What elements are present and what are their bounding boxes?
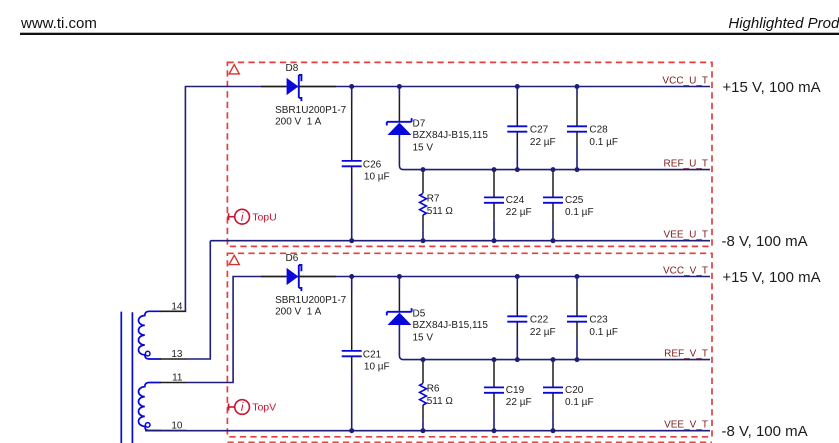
capacitor C21 (10 uF) [342, 351, 362, 356]
svg-text:+15 V, 100 mA: +15 V, 100 mA [722, 79, 820, 96]
pin 11 stub [160, 382, 186, 384]
capacitor C19 (22 uF) [484, 387, 504, 392]
node: VCC_U junctions [349, 84, 354, 89]
capacitor C23 (0.1 uF) [567, 316, 587, 321]
info flag TopV [227, 400, 249, 415]
svg-text:BZX84J-B15,115: BZX84J-B15,115 [413, 320, 489, 331]
wire: VCC_V rail [273, 276, 710, 278]
transformer secondary winding (pins 14-13) [138, 311, 160, 359]
wire: C21 bottom lead [351, 357, 353, 373]
wire: VEE_V rail [145, 430, 710, 432]
zener D5 (BZX84J-B15,115) [387, 308, 412, 325]
wire: C20 top lead [552, 360, 554, 387]
capacitor C20 (0.1 uF) [543, 387, 563, 392]
node: VCC_V junctions [349, 274, 354, 279]
wire: D7 top lead [398, 87, 400, 98]
wire: D5 top lead [398, 277, 400, 288]
svg-text:511 Ω: 511 Ω [427, 396, 454, 407]
svg-text:C20: C20 [565, 385, 584, 396]
wire: diode D6 cathode pin [300, 276, 336, 278]
svg-text:10 µF: 10 µF [364, 361, 390, 372]
wire: C28 top lead [576, 87, 578, 96]
svg-text:10 µF: 10 µF [364, 171, 390, 182]
phase dot lower winding [145, 423, 150, 428]
wire: C22 bottom lead [516, 322, 518, 337]
svg-text:BZX84J-B15,115: BZX84J-B15,115 [413, 130, 489, 141]
svg-text:D8: D8 [286, 63, 299, 74]
svg-text:R7: R7 [427, 194, 440, 205]
svg-text:13: 13 [171, 349, 183, 360]
pin 10 stub [160, 430, 186, 432]
svg-text:i: i [241, 402, 244, 414]
svg-text:SBR1U200P1-7: SBR1U200P1-7 [275, 295, 347, 306]
svg-text:0.1 µF: 0.1 µF [565, 397, 594, 408]
svg-text:VCC_V_T: VCC_V_T [663, 266, 708, 277]
wire: C21 top lead [351, 277, 353, 291]
header rule [20, 33, 839, 35]
wire: C19 top lead [493, 360, 495, 387]
wire: C25 bottom lead [552, 203, 554, 219]
wire: C28 bottom lead [576, 132, 578, 147]
svg-text:-8 V, 100 mA: -8 V, 100 mA [722, 423, 808, 440]
svg-text:0.1 µF: 0.1 µF [589, 137, 618, 148]
svg-text:22 µF: 22 µF [530, 137, 556, 148]
svg-text:200 V 1 A: 200 V 1 A [275, 116, 321, 127]
svg-text:22 µF: 22 µF [506, 207, 532, 218]
svg-text:-8 V, 100 mA: -8 V, 100 mA [722, 233, 808, 250]
wire: REF_U rail from zener elbow [399, 134, 710, 170]
svg-text:C25: C25 [565, 195, 584, 206]
red dashed top edge of bottom (clipped) box [227, 441, 712, 443]
svg-text:VCC_U_T: VCC_U_T [662, 76, 708, 87]
wire: diode D8 cathode pin [300, 86, 336, 88]
svg-text:C23: C23 [589, 315, 608, 326]
red dashed highlight box TopU [227, 62, 712, 246]
wire: C22 top lead [516, 277, 518, 286]
wire: diode D6 pins [261, 276, 286, 278]
svg-text:C22: C22 [530, 315, 549, 326]
svg-text:VEE_U_T: VEE_U_T [664, 230, 708, 241]
svg-text:0.1 µF: 0.1 µF [589, 327, 618, 338]
svg-text:i: i [241, 212, 244, 224]
wire: C25 top lead [552, 170, 554, 197]
svg-text:15 V: 15 V [413, 142, 434, 153]
svg-text:REF_V_T: REF_V_T [664, 349, 708, 360]
node: REF_V junctions [421, 357, 426, 362]
svg-text:22 µF: 22 µF [530, 327, 556, 338]
warning triangle marker (TopU box) [229, 65, 239, 74]
svg-text:0.1 µF: 0.1 µF [565, 207, 594, 218]
svg-text:D5: D5 [413, 308, 426, 319]
svg-text:R6: R6 [427, 384, 440, 395]
svg-text:D7: D7 [413, 118, 426, 129]
wire: C23 bottom lead [576, 322, 578, 337]
svg-text:C28: C28 [589, 125, 608, 136]
phase dot upper winding [145, 351, 150, 356]
svg-text:C24: C24 [506, 195, 525, 206]
svg-text:C26: C26 [363, 159, 382, 170]
svg-text:C27: C27 [530, 125, 549, 136]
wire: C26 bottom lead [351, 167, 353, 183]
svg-text:200 V 1 A: 200 V 1 A [275, 306, 321, 317]
svg-text:D6: D6 [286, 253, 299, 264]
node: VEE_V junctions [349, 428, 354, 433]
resistor R7 (511 Ohm) [420, 193, 427, 215]
wire: R6 bottom lead [422, 405, 424, 421]
svg-text:10: 10 [171, 420, 183, 431]
zener D7 (BZX84J-B15,115) [387, 118, 412, 135]
red dashed highlight box TopV [227, 253, 712, 436]
svg-text:REF_U_T: REF_U_T [664, 159, 708, 170]
wire: C27 top lead [516, 87, 518, 96]
transformer core line 1 [120, 312, 122, 443]
wire: pin14 riser to VCC_U [185, 87, 273, 312]
node: REF_U junctions [421, 167, 426, 172]
svg-text:+15 V, 100 mA: +15 V, 100 mA [722, 269, 820, 286]
wire: VEE_U rail [210, 240, 710, 242]
resistor R6 (511 Ohm) [420, 383, 427, 405]
svg-text:511 Ω: 511 Ω [427, 206, 454, 217]
wire: C26 top lead [351, 87, 353, 101]
transformer core line 2 [131, 312, 133, 443]
node: VEE_U junctions [349, 238, 354, 243]
svg-text:22 µF: 22 µF [506, 397, 532, 408]
svg-text:C19: C19 [506, 385, 525, 396]
transformer secondary winding (pins 11-10) [139, 383, 161, 431]
capacitor C26 (10 uF) [342, 161, 362, 166]
capacitor C28 (0.1 uF) [567, 126, 587, 131]
wire: C27 bottom lead [516, 132, 518, 147]
wire: C24 top lead [493, 170, 495, 197]
svg-text:VEE_V_T: VEE_V_T [664, 420, 708, 431]
svg-text:C21: C21 [363, 349, 382, 360]
warning triangle marker (TopV box) [229, 255, 239, 264]
svg-text:Highlighted Products: Highlighted Products [728, 15, 839, 32]
capacitor C22 (22 uF) [507, 316, 527, 321]
svg-text:SBR1U200P1-7: SBR1U200P1-7 [275, 105, 347, 116]
pin 13 stub [160, 358, 186, 360]
svg-text:TopV: TopV [252, 402, 276, 414]
info flag TopU [227, 209, 249, 224]
wire: R7 top lead [422, 170, 424, 194]
wire: C24 bottom lead [493, 203, 495, 219]
capacitor C25 (0.1 uF) [543, 197, 563, 202]
wire: C20 bottom lead [552, 393, 554, 409]
wire: R6 top lead [422, 360, 424, 384]
svg-text:TopU: TopU [252, 211, 277, 223]
wire: R7 bottom lead [422, 215, 424, 231]
svg-text:15 V: 15 V [413, 332, 434, 343]
wire: pin11 riser to VCC_V [186, 277, 273, 383]
diode D6 (SBR1U200P1-7) [287, 265, 302, 291]
pin 14 stub [160, 310, 186, 312]
wire: VCC_U rail [273, 86, 710, 88]
wire: C19 bottom lead [493, 393, 495, 409]
wire: pin13 riser to VEE_U [186, 241, 210, 359]
wire: diode D8 pins [261, 86, 286, 88]
wire: C23 top lead [576, 277, 578, 286]
diode D8 (SBR1U200P1-7) [287, 75, 302, 101]
capacitor C27 (22 uF) [507, 126, 527, 131]
capacitor C24 (22 uF) [484, 197, 504, 202]
wire: REF_V rail from zener elbow [399, 324, 710, 360]
svg-text:www.ti.com: www.ti.com [20, 15, 97, 32]
